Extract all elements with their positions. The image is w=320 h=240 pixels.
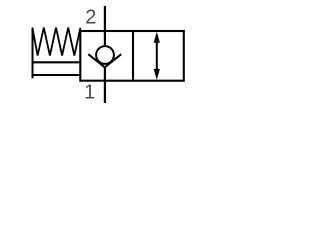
position divider line [132,31,134,81]
svg-text:2: 2 [85,6,96,28]
flow arrow (double-headed, right cell) [154,32,160,80]
check valve V seat [88,54,121,67]
port 1 line [104,81,106,103]
svg-text:1: 1 [84,82,95,104]
valve body outline [80,31,184,81]
spring zigzag [33,28,81,56]
check valve circle [96,46,114,64]
actuator box bottom line [33,74,81,76]
wire from top edge to check ball [104,31,106,47]
actuator box top line [33,61,81,63]
spring left end bar [32,28,34,79]
port 2 line [104,6,106,31]
wire from V apex to bottom edge [104,67,106,80]
